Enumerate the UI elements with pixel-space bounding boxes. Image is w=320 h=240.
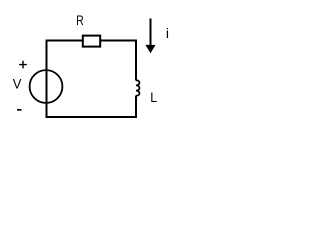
wire right vertical upper [135,40,137,81]
wire right vertical lower [135,96,137,119]
label + [19,61,27,69]
wire top-left segment [47,40,84,42]
wire bottom [46,116,138,118]
svg-text:V: V [13,75,22,91]
wire left vertical [46,40,48,119]
svg-text:L: L [150,89,157,105]
inductor L (coil) [136,80,139,96]
wire top-right segment [100,40,137,42]
resistor R [83,36,100,47]
current arrow head [145,45,155,53]
svg-text:R: R [76,12,84,28]
svg-text:i: i [166,25,169,41]
current arrow shaft [150,19,152,47]
voltage source V (circle) [30,70,63,103]
label - [17,109,22,111]
